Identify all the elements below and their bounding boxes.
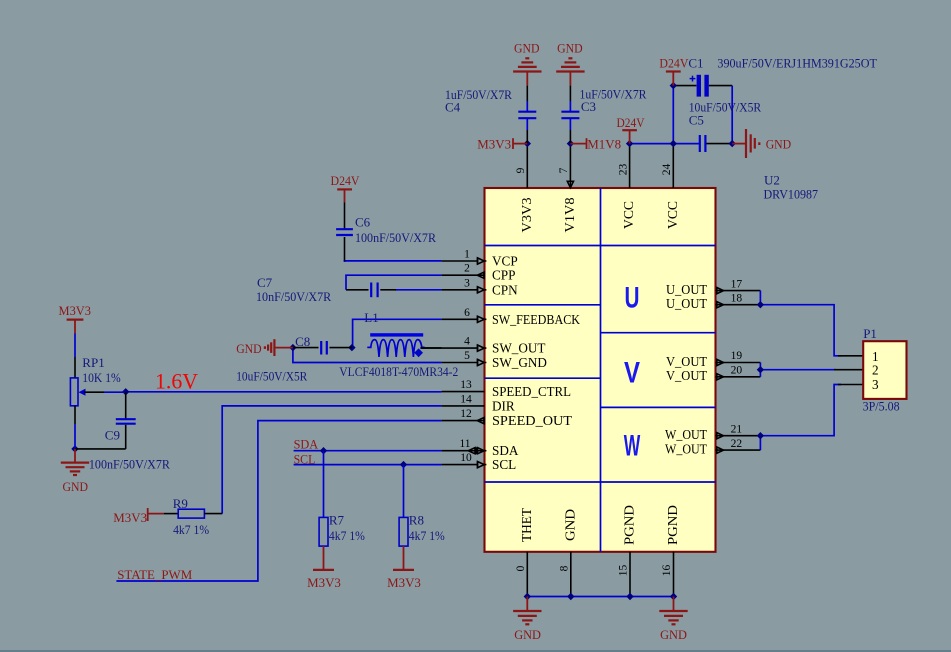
wire SCL to pin 10	[294, 464, 442, 466]
inductor L1	[339, 310, 458, 379]
svg-text:17: 17	[731, 278, 743, 290]
U2 top row port names (rotated)	[519, 197, 680, 232]
svg-text:3P/5.08: 3P/5.08	[863, 399, 900, 414]
svg-text:SPEED_CTRL: SPEED_CTRL	[492, 384, 571, 399]
svg-text:2: 2	[464, 263, 470, 275]
wire pin1 VCP from C6	[345, 261, 442, 262]
svg-text:GND: GND	[557, 41, 583, 56]
pin 23 VCC top	[617, 144, 629, 188]
svg-text:19: 19	[731, 350, 743, 362]
resistor R7	[307, 451, 365, 590]
svg-text:SW_OUT: SW_OUT	[492, 341, 545, 356]
pin 12 SPEED_OUT	[442, 408, 485, 424]
svg-text:11: 11	[459, 438, 470, 450]
wire pin12 SPEED_OUT from STATE_PWM	[116, 421, 441, 581]
svg-text:D24V: D24V	[659, 56, 689, 71]
svg-text:4k7 1%: 4k7 1%	[409, 528, 445, 543]
svg-text:10nF/50V/X7R: 10nF/50V/X7R	[256, 289, 332, 304]
power D24V at pin 23	[617, 115, 646, 144]
wire C1 top loop	[673, 86, 732, 144]
power D24V above C1	[659, 56, 689, 86]
svg-text:8: 8	[559, 565, 571, 571]
ground GND below pin 16	[659, 597, 687, 643]
wire top VCC rail D24V to C5	[630, 143, 700, 145]
svg-text:V: V	[624, 357, 640, 390]
svg-text:U: U	[625, 282, 640, 315]
svg-text:M3V3: M3V3	[477, 137, 511, 152]
pin 13 SPEED_CTRL	[442, 379, 485, 392]
svg-text:C3: C3	[581, 99, 596, 114]
wire C5 right lead to GND node	[706, 143, 732, 145]
svg-text:SW_FEEDBACK: SW_FEEDBACK	[492, 312, 580, 327]
svg-text:4k7 1%: 4k7 1%	[329, 528, 365, 543]
svg-text:GND: GND	[63, 479, 89, 494]
svg-text:GND: GND	[766, 137, 792, 152]
pin 17 U_OUT	[716, 278, 761, 293]
svg-text:U_OUT: U_OUT	[666, 296, 707, 311]
U2 designator label	[764, 173, 819, 202]
wire bottom ground bus	[527, 596, 673, 598]
svg-text:14: 14	[460, 393, 472, 405]
wire pin13 SPEED_CTRL from RP1	[126, 391, 442, 393]
svg-text:20: 20	[731, 365, 743, 377]
svg-text:C9: C9	[105, 428, 120, 443]
wire pin2 CPP loop	[346, 275, 442, 290]
capacitor C7	[256, 275, 396, 304]
svg-text:M3V3: M3V3	[59, 303, 92, 318]
wire pin6 SW_FEEDBACK	[353, 319, 442, 347]
svg-text:21: 21	[731, 423, 743, 435]
pin 24 VCC top	[661, 144, 673, 188]
svg-text:C6: C6	[355, 215, 371, 230]
svg-text:1: 1	[464, 249, 470, 261]
svg-text:GND: GND	[514, 627, 541, 642]
U2 left pin names	[492, 254, 580, 473]
svg-text:7: 7	[558, 167, 570, 173]
wire pin3 CPN right lead	[395, 289, 442, 291]
pin 8 GND bottom	[559, 552, 571, 597]
capacitor C8	[236, 334, 352, 384]
pin 5 SW_GND	[442, 350, 487, 366]
capacitor C5	[689, 99, 762, 152]
svg-text:M3V3: M3V3	[113, 510, 147, 525]
svg-text:CPP: CPP	[492, 268, 515, 283]
svg-text:R9: R9	[173, 496, 188, 511]
svg-text:100nF/50V/X7R: 100nF/50V/X7R	[89, 457, 170, 472]
svg-text:C7: C7	[257, 275, 273, 290]
power M1V8 tick at pin 7	[570, 137, 621, 152]
svg-text:THET: THET	[519, 508, 534, 542]
svg-text:18: 18	[731, 292, 743, 304]
svg-text:VCP: VCP	[492, 254, 518, 269]
pin 7 V1V8 top	[558, 144, 573, 188]
capacitor C9	[75, 392, 170, 472]
pin 11 SDA	[442, 438, 487, 454]
svg-text:C5: C5	[689, 113, 704, 128]
svg-text:VCC: VCC	[665, 201, 680, 229]
svg-text:24: 24	[661, 164, 673, 176]
capacitor C3	[561, 86, 646, 144]
svg-text:GND: GND	[514, 41, 540, 56]
svg-text:W_OUT: W_OUT	[665, 441, 707, 456]
svg-text:R8: R8	[409, 512, 424, 527]
wire SDA to pin 11	[294, 450, 442, 452]
U2 right pin names	[665, 282, 707, 457]
wire pin5 SW_GND return	[293, 348, 442, 363]
svg-text:1.6V: 1.6V	[155, 369, 198, 394]
pin 19 V_OUT	[716, 350, 761, 365]
pin 3 CPN	[442, 277, 487, 293]
svg-text:2: 2	[872, 363, 879, 378]
svg-text:13: 13	[460, 379, 472, 391]
power M3V3 tick at pin 9	[477, 137, 527, 152]
svg-text:GND: GND	[660, 627, 687, 642]
svg-text:DRV10987: DRV10987	[764, 187, 819, 202]
svg-text:L1: L1	[364, 310, 378, 325]
svg-text:D24V: D24V	[331, 173, 361, 188]
ground GND below RP1	[61, 449, 89, 494]
ground GND above C3	[556, 41, 584, 86]
pin 20 V_OUT	[716, 365, 761, 380]
capacitor C1 electrolytic	[688, 56, 877, 97]
svg-text:23: 23	[617, 164, 629, 176]
svg-text:P1: P1	[863, 326, 877, 341]
svg-text:V_OUT: V_OUT	[666, 368, 707, 383]
pin 4 SW_OUT	[420, 336, 486, 352]
svg-text:PGND: PGND	[622, 505, 637, 545]
pin 9 V3V3 top	[515, 144, 527, 188]
connector P1	[863, 326, 907, 413]
svg-text:DIR: DIR	[492, 398, 515, 413]
svg-text:U2: U2	[764, 173, 780, 188]
svg-text:C1: C1	[688, 56, 703, 71]
potentiometer RP1	[70, 334, 125, 449]
svg-text:0: 0	[515, 565, 527, 571]
svg-text:SW_GND: SW_GND	[492, 355, 547, 370]
svg-text:15: 15	[618, 565, 630, 577]
U2 bottom row port names (rotated)	[519, 505, 680, 545]
svg-text:VCC: VCC	[621, 201, 636, 229]
pin 16 PGND bottom	[661, 552, 673, 597]
svg-text:PGND: PGND	[665, 505, 680, 545]
pin 1 VCP	[442, 249, 487, 265]
svg-text:1: 1	[872, 349, 879, 364]
pin 2 CPP	[442, 263, 485, 279]
power D24V above C6	[331, 173, 361, 203]
capacitor C4	[445, 86, 536, 144]
svg-text:GND: GND	[562, 509, 577, 541]
svg-text:GND: GND	[236, 341, 262, 356]
svg-text:M1V8: M1V8	[587, 137, 621, 152]
pin 10 SCL	[442, 452, 487, 468]
ground GND left of C8	[236, 339, 293, 356]
svg-text:3: 3	[872, 377, 879, 392]
wire U_OUT pair to P1 pin1	[760, 291, 863, 356]
svg-text:100nF/50V/X7R: 100nF/50V/X7R	[355, 230, 436, 245]
svg-text:16: 16	[661, 565, 673, 577]
power M3V3 top left	[59, 303, 92, 333]
svg-text:390uF/50V/ERJ1HM391G25OT: 390uF/50V/ERJ1HM391G25OT	[717, 56, 877, 71]
svg-text:12: 12	[460, 408, 472, 420]
ground GND above C4	[513, 41, 541, 86]
svg-text:D24V: D24V	[617, 115, 646, 130]
svg-text:RP1: RP1	[82, 355, 104, 370]
svg-text:SPEED_OUT: SPEED_OUT	[492, 413, 572, 428]
pin 14 DIR	[442, 393, 485, 406]
svg-text:U_OUT: U_OUT	[666, 282, 707, 297]
svg-text:STATE_PWM: STATE_PWM	[117, 567, 192, 582]
svg-text:W: W	[624, 429, 641, 462]
pin 18 U_OUT	[716, 292, 761, 307]
resistor R8	[387, 465, 445, 590]
svg-text:4k7 1%: 4k7 1%	[173, 522, 209, 537]
wire W_OUT pair to P1 pin3	[760, 385, 863, 451]
capacitor C6	[336, 203, 436, 246]
pin 0 THET bottom	[515, 552, 527, 597]
svg-text:CPN: CPN	[492, 282, 518, 297]
svg-text:5: 5	[464, 350, 470, 362]
pin 15 PGND bottom	[618, 552, 630, 597]
wire pin14 DIR from R9	[222, 406, 441, 514]
pin 21 W_OUT	[716, 423, 761, 438]
svg-text:M3V3: M3V3	[387, 575, 421, 590]
svg-text:10K 1%: 10K 1%	[82, 370, 121, 385]
svg-text:6: 6	[464, 307, 470, 319]
svg-text:SCL: SCL	[492, 457, 516, 472]
svg-text:C8: C8	[295, 334, 310, 349]
svg-text:SDA: SDA	[492, 443, 519, 458]
svg-text:SDA: SDA	[294, 437, 319, 452]
svg-text:SCL: SCL	[294, 452, 316, 467]
svg-text:C4: C4	[445, 100, 461, 115]
pin 22 W_OUT	[716, 438, 761, 453]
IC U2 DRV10987 body	[485, 188, 716, 552]
svg-text:10: 10	[460, 452, 472, 464]
U2 big phase letters U V W	[624, 282, 641, 463]
svg-text:VLCF4018T-470MR34-2: VLCF4018T-470MR34-2	[339, 364, 458, 379]
ground GND below pin 0	[513, 597, 541, 643]
svg-text:V_OUT: V_OUT	[666, 354, 707, 369]
svg-text:3: 3	[464, 277, 470, 289]
resistor R9	[113, 496, 222, 537]
svg-text:10uF/50V/X5R: 10uF/50V/X5R	[236, 368, 307, 383]
svg-text:M3V3: M3V3	[307, 575, 341, 590]
svg-text:W_OUT: W_OUT	[665, 427, 707, 442]
svg-text:9: 9	[515, 167, 527, 173]
svg-text:V3V3: V3V3	[519, 197, 534, 232]
svg-text:V1V8: V1V8	[562, 197, 577, 232]
ground GND right of C5	[732, 129, 791, 158]
wire V_OUT pair to P1 pin2	[760, 363, 863, 377]
svg-text:4: 4	[464, 336, 470, 348]
svg-text:R7: R7	[329, 512, 345, 527]
pin 6 SW_FEEDBACK	[442, 307, 487, 323]
svg-text:22: 22	[731, 438, 743, 450]
